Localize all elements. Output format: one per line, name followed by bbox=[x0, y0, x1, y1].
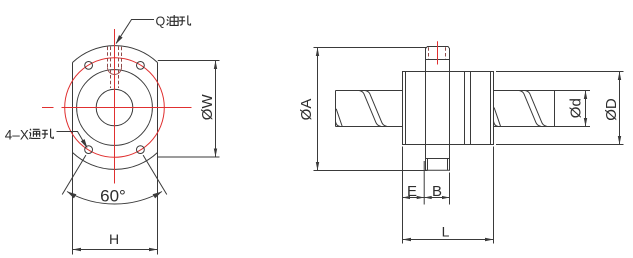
svg-text:H: H bbox=[109, 231, 119, 247]
left view: 60 deg angle leg right bbox=[143, 155, 167, 194]
left view: 60 deg arc arrowhead right bbox=[153, 192, 162, 199]
svg-text:L: L bbox=[442, 224, 450, 240]
svg-text:ØW: ØW bbox=[199, 94, 216, 121]
right view: nut groove line 2 bbox=[470, 72, 472, 145]
dimension øA dimension line bbox=[317, 48, 319, 171]
left view: flange left flat + H extension line bbox=[72, 63, 74, 255]
leader line for bolt hole label bbox=[57, 132, 87, 148]
dimension H dimension line bbox=[73, 249, 158, 251]
svg-text:B: B bbox=[432, 183, 442, 200]
right view: right thread line 1 bbox=[520, 91, 541, 127]
dimension E dimension line bbox=[403, 197, 425, 199]
label hole-glyph 孔 second bbox=[42, 129, 54, 139]
left view: nut body circle bbox=[77, 70, 153, 146]
left view: flange outline top arc bbox=[73, 46, 158, 63]
left view: bolt circle (red centerline circle) bbox=[65, 58, 165, 158]
leader line for oil hole label bbox=[116, 20, 154, 44]
right view: oil port boss outline with chamfers bbox=[426, 47, 450, 60]
svg-text:ØA: ØA bbox=[298, 99, 315, 121]
left view: flange right flat + H extension line bbox=[157, 63, 159, 255]
svg-text:60°: 60° bbox=[100, 187, 126, 206]
dimension øA extension line top bbox=[314, 47, 427, 49]
dimension øW extension lines bbox=[158, 60, 220, 62]
svg-text:4–X: 4–X bbox=[5, 127, 29, 142]
right view: nut groove line 1 bbox=[464, 72, 466, 145]
label hole-glyph 孔 bbox=[179, 15, 191, 25]
dimension ød dimension line bbox=[585, 91, 587, 127]
right view: nut body outline bbox=[403, 72, 494, 145]
right view: thread end line bbox=[554, 91, 556, 127]
right view: oil port boss base line bbox=[426, 59, 450, 61]
left view: oil hole counterbore bottom U bbox=[108, 68, 122, 75]
left view: horizontal centerline bbox=[42, 107, 54, 109]
left view: bolt through-hole 1 bbox=[85, 62, 93, 70]
right view: shaft right section bottom line bbox=[494, 126, 591, 128]
right view: flange bottom edge bbox=[426, 158, 450, 160]
right view: left thread line 1 bbox=[360, 91, 381, 127]
right view: bottom boss chamfer inner lines bbox=[427, 159, 429, 171]
right view: flange right edge bbox=[449, 60, 451, 159]
dimension E extension line left bbox=[402, 147, 404, 244]
left view: vertical centerline bbox=[114, 29, 116, 184]
dimension B dimension line bbox=[424, 197, 449, 199]
right view: thread runout right of nut bbox=[494, 108, 501, 127]
dimension øD extension line bottom bbox=[496, 144, 624, 146]
right view: shaft right section top line bbox=[494, 90, 591, 92]
svg-text:ØD: ØD bbox=[603, 98, 620, 121]
dimension øA extension line bottom bbox=[314, 170, 428, 172]
right view: oil port thread hidden lines bbox=[428, 47, 430, 59]
right view: oil port centerline bbox=[437, 41, 439, 64]
left view: 60 deg arc arrowhead left bbox=[67, 192, 76, 199]
left view: bolt through-hole 3 bbox=[85, 146, 93, 154]
dimension øD extension line top bbox=[496, 71, 624, 73]
right view: shaft left section bottom line bbox=[336, 126, 403, 128]
dimension øW dimension line bbox=[215, 61, 217, 158]
left view: flange outline bottom arc bbox=[73, 153, 158, 170]
right view: flange left edge bbox=[425, 60, 427, 159]
left view: bolt through-hole 2 bbox=[137, 62, 145, 70]
left view: 60 deg angle leg left bbox=[62, 155, 86, 194]
dimension L dimension line bbox=[403, 239, 494, 241]
label oil-glyph 油 bbox=[167, 15, 178, 25]
left view: screw bore circle bbox=[96, 89, 133, 126]
dimension øD dimension line bbox=[619, 72, 621, 145]
right view: shaft left end face bbox=[335, 91, 337, 127]
right view: thread runout at left end bbox=[336, 109, 343, 127]
svg-text:Ød: Ød bbox=[568, 98, 585, 118]
right view: right thread line 2 bbox=[525, 91, 546, 127]
right view: left thread line 2 bbox=[365, 91, 386, 127]
left view: oil hole counterbore hidden lines bbox=[107, 47, 109, 68]
svg-text:E: E bbox=[407, 183, 417, 200]
right view: bottom boss outline bbox=[426, 159, 450, 171]
right view: nut wiper seam near left end bbox=[405, 72, 407, 145]
label through-glyph 通 bbox=[29, 129, 40, 139]
dimension B extension line right bbox=[449, 173, 451, 205]
dimension E/B extension line middle bbox=[423, 161, 425, 205]
right view: nut wiper seam near right end bbox=[490, 72, 492, 145]
left view: 60 deg dimension arc bbox=[67, 192, 162, 205]
dimension L extension line right bbox=[493, 147, 495, 244]
svg-text:Q: Q bbox=[156, 15, 166, 29]
left view: oil hole pilot hidden lines bbox=[110, 47, 112, 89]
right view: shaft left section top line bbox=[336, 90, 403, 92]
left view: bolt through-hole 4 bbox=[137, 146, 145, 154]
